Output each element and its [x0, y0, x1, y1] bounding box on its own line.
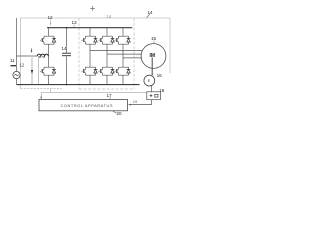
svg-text:11: 11: [10, 58, 15, 63]
svg-text:19: 19: [133, 99, 138, 104]
inverter leg U lower: [82, 65, 98, 78]
leader for 11: [11, 65, 17, 67]
svg-text:20: 20: [117, 111, 123, 116]
enclosure outline top: [21, 17, 171, 19]
encoder output wire: [151, 86, 153, 92]
control apparatus box: [39, 100, 128, 111]
plus mark: [90, 6, 95, 11]
svg-text:12: 12: [48, 15, 54, 20]
svg-text:14: 14: [62, 46, 67, 51]
inverter leg V upper: [106, 28, 108, 34]
leader arrow above reactor line: [31, 48, 33, 51]
DC negative (bottom) bus: [17, 84, 140, 86]
svg-text:17: 17: [107, 93, 113, 98]
converter dashed box bottom edge: [21, 88, 63, 90]
inverter dashed box: [79, 19, 134, 90]
AC input line to leg midpoint: [17, 55, 38, 57]
smoothing capacitor C1: [66, 28, 68, 53]
voltage sense arrow: [31, 58, 33, 85]
motor M1: [141, 44, 166, 69]
svg-text:13: 13: [72, 20, 78, 25]
inverter leg W upper: [122, 28, 124, 34]
motor shaft: [151, 58, 153, 76]
svg-text:14: 14: [107, 14, 112, 19]
reactor L1: [37, 54, 48, 57]
converter upper arm Q1: [48, 28, 50, 34]
converter dashed box left edge: [20, 18, 22, 89]
AC source E1: [16, 18, 18, 71]
phase wire U: [90, 49, 142, 51]
converter lower arm Q2: [40, 65, 56, 78]
svg-text:14: 14: [148, 10, 154, 15]
enclosure right edge: [169, 18, 171, 73]
svg-text:CONTROL APPARATUS: CONTROL APPARATUS: [61, 103, 114, 108]
wire from reactor node down to bus: [38, 56, 40, 84]
svg-text:16: 16: [157, 73, 163, 78]
svg-text:15: 15: [151, 36, 157, 41]
leader for 12: [50, 20, 52, 24]
phase wire V: [107, 53, 141, 55]
encoder PG1: [144, 75, 155, 86]
inverter leg W lower: [115, 65, 131, 78]
gate line corner: [50, 89, 52, 93]
speed detector box: [147, 92, 161, 100]
feedback wire into control apparatus: [130, 100, 152, 105]
svg-text:12: 12: [20, 63, 25, 68]
svg-text:18: 18: [159, 88, 165, 93]
inverter leg V lower: [99, 65, 115, 78]
sense line to control: [41, 92, 147, 94]
DC positive bus: [47, 27, 132, 29]
phase wire W: [123, 57, 142, 59]
converter leg midpoint wire: [48, 47, 50, 65]
inverter leg U upper: [89, 28, 91, 34]
label 20: [113, 111, 117, 113]
